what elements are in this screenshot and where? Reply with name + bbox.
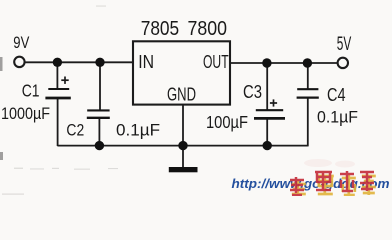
svg-text:1000µF: 1000µF <box>1 104 50 123</box>
wire C3 bottom lead <box>266 118 268 146</box>
svg-text:7800: 7800 <box>188 17 228 40</box>
node dot rail C3 <box>263 141 272 150</box>
node dot rail C2 <box>95 141 104 150</box>
svg-text:C2: C2 <box>66 120 84 139</box>
wire GND lead <box>182 105 184 146</box>
wire C4 top lead <box>307 63 309 89</box>
wire ground stub <box>182 146 184 168</box>
wire input top <box>25 61 132 63</box>
node dot output C3 tap <box>262 58 271 67</box>
svg-text:9V: 9V <box>13 33 30 52</box>
svg-text:OUT: OUT <box>203 52 229 72</box>
wire C1 bottom lead <box>57 98 59 146</box>
terminal 5V output <box>338 58 348 68</box>
capacitor C4 plates <box>297 89 319 97</box>
svg-text:C4: C4 <box>327 84 346 105</box>
op-amp U1 regulator box 7805/7800 <box>133 41 230 104</box>
wire C3 top lead <box>266 63 268 110</box>
svg-text:GND: GND <box>167 83 196 104</box>
wire C1 top lead <box>56 62 58 89</box>
capacitor C3 electrolytic plates <box>254 110 285 118</box>
capacitor C1 electrolytic plates <box>45 89 70 98</box>
node dot rail GND <box>178 141 187 150</box>
svg-text:7805: 7805 <box>141 17 180 40</box>
ground <box>169 167 198 172</box>
capacitor C2 plates <box>87 110 110 117</box>
wire C2 top lead <box>99 62 101 110</box>
svg-text:0.1µF: 0.1µF <box>116 121 160 139</box>
node dot output C4 tap <box>303 58 312 67</box>
svg-text:C1: C1 <box>22 80 40 100</box>
svg-text:5V: 5V <box>337 34 352 55</box>
wire output top <box>231 62 338 64</box>
wire C2 bottom lead <box>98 118 100 146</box>
svg-text:0.1µF: 0.1µF <box>317 108 358 127</box>
svg-text:IN: IN <box>138 52 154 72</box>
terminal 9V input <box>14 57 24 67</box>
C3 polarity plus <box>270 99 277 106</box>
wire bottom rail <box>57 145 307 147</box>
node dot input C1 tap <box>53 58 62 67</box>
wire C4 bottom lead <box>307 98 309 147</box>
red stamp watermark <box>290 171 376 197</box>
scan noise marks <box>0 57 3 160</box>
C1 polarity plus <box>61 77 68 84</box>
svg-text:C3: C3 <box>243 82 262 102</box>
node dot input C2 tap <box>95 58 104 67</box>
svg-text:100µF: 100µF <box>206 112 248 132</box>
faint pink smudge <box>304 159 355 168</box>
